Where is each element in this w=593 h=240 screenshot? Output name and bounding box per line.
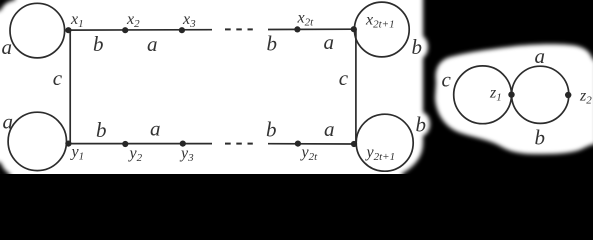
loop b at y2t+1 (bottom-right) bbox=[356, 114, 413, 171]
node x1 bbox=[65, 27, 71, 33]
node y1 bbox=[65, 141, 71, 147]
wire top edge right segment bbox=[268, 28, 354, 30]
svg-text:a: a bbox=[324, 117, 335, 141]
wire top edge left segment bbox=[68, 29, 212, 31]
node z1 bbox=[508, 91, 514, 97]
loop a at x1 (top-left) bbox=[10, 3, 65, 58]
svg-text:a: a bbox=[3, 110, 14, 134]
svg-text:b: b bbox=[267, 32, 278, 56]
svg-text:c: c bbox=[442, 68, 452, 92]
svg-text:b: b bbox=[96, 118, 107, 142]
wire c right vertical bbox=[355, 29, 357, 144]
wire bottom edge right segment bbox=[268, 143, 354, 145]
ellipsis bottom bbox=[225, 143, 231, 145]
svg-text:b: b bbox=[416, 112, 427, 136]
node z2 bbox=[565, 92, 571, 98]
svg-text:a: a bbox=[147, 32, 158, 56]
figure-eight white area bbox=[435, 44, 593, 154]
svg-text:c: c bbox=[339, 66, 349, 90]
node x3 bbox=[179, 27, 185, 33]
loop b at x2t+1 (top-right) bbox=[354, 2, 409, 57]
left figure white area bbox=[0, 0, 423, 184]
loop a at y1 (bottom-left) bbox=[8, 112, 66, 170]
node x2t+1 bbox=[351, 26, 357, 32]
svg-text:a: a bbox=[324, 30, 335, 54]
black corner wedges bbox=[0, 0, 16, 178]
svg-text:a: a bbox=[535, 44, 546, 68]
node x2t bbox=[294, 26, 300, 32]
node y3 bbox=[180, 141, 186, 147]
wire bottom edge left segment bbox=[68, 143, 212, 145]
wire c left vertical bbox=[69, 30, 71, 144]
svg-text:b: b bbox=[93, 32, 104, 56]
node x2 bbox=[122, 27, 128, 33]
svg-text:c: c bbox=[53, 66, 63, 90]
svg-text:a: a bbox=[150, 116, 161, 140]
node y2t+1 bbox=[351, 141, 357, 147]
svg-text:a: a bbox=[2, 35, 13, 59]
node y2 bbox=[122, 141, 128, 147]
loop c at z1 (figure-eight left) bbox=[454, 66, 512, 124]
white page blobs bbox=[0, 0, 593, 184]
ellipsis top bbox=[225, 28, 231, 30]
loop a/b at z1-z2 (figure-eight right) bbox=[512, 66, 569, 123]
svg-text:b: b bbox=[535, 126, 546, 150]
node y2t bbox=[295, 141, 301, 147]
svg-text:b: b bbox=[266, 118, 277, 142]
svg-text:b: b bbox=[412, 35, 423, 59]
